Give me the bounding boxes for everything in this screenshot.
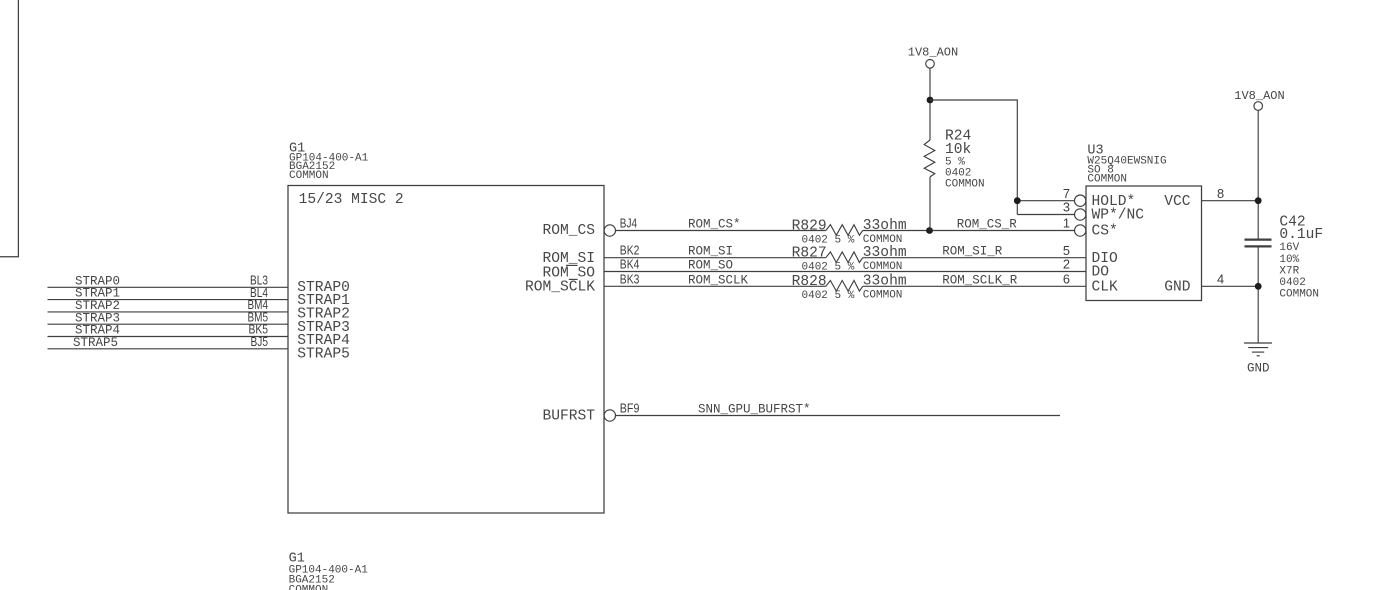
wire STRAP1 <box>48 287 289 301</box>
svg-text:BK2: BK2 <box>620 243 640 258</box>
pin 6 CLK <box>1063 271 1118 295</box>
svg-text:0402: 0402 <box>1279 277 1305 289</box>
wire STRAP5 <box>48 336 289 350</box>
pin BK4 ROM_SO <box>542 257 639 282</box>
svg-text:ROM_SCLK: ROM_SCLK <box>688 273 749 287</box>
svg-text:10%: 10% <box>1279 254 1299 266</box>
svg-text:COMMON: COMMON <box>289 170 329 182</box>
svg-text:CS*: CS* <box>1092 224 1118 240</box>
svg-text:COMMON: COMMON <box>863 290 903 302</box>
svg-text:VCC: VCC <box>1164 194 1191 210</box>
svg-text:33ohm: 33ohm <box>863 245 907 261</box>
pin 5 DIO <box>1063 243 1118 267</box>
pin 1 CS* <box>1063 216 1118 240</box>
svg-text:BUFRST: BUFRST <box>542 409 595 425</box>
svg-text:1V8_AON: 1V8_AON <box>1234 89 1284 103</box>
svg-text:ROM_CS*: ROM_CS* <box>688 218 741 232</box>
pin BK3 ROM_SCLK <box>525 271 639 295</box>
svg-text:0402 5 %: 0402 5 % <box>802 290 855 302</box>
wire STRAP0 <box>48 274 289 288</box>
pin BM5 STRAP3 <box>248 309 350 335</box>
pin 3 WP*/NC <box>1063 200 1144 224</box>
resistor R24 <box>924 129 984 231</box>
svg-text:ROM_SCLK: ROM_SCLK <box>525 279 595 295</box>
pin 8 VCC <box>1164 186 1258 210</box>
svg-text:STRAP5: STRAP5 <box>297 346 350 362</box>
junction at R24 top <box>927 97 934 104</box>
pin BF9 BUFRST <box>542 401 639 425</box>
svg-text:15/23 MISC 2: 15/23 MISC 2 <box>299 192 404 208</box>
svg-text:GND: GND <box>1164 279 1191 295</box>
svg-text:33ohm: 33ohm <box>863 274 907 290</box>
svg-text:R827: R827 <box>792 246 827 262</box>
svg-text:ROM_SI: ROM_SI <box>688 245 733 259</box>
svg-text:COMMON: COMMON <box>945 179 985 191</box>
svg-text:R829: R829 <box>792 218 827 234</box>
svg-text:BK3: BK3 <box>620 271 640 286</box>
wire STRAP2 <box>48 299 289 313</box>
wire ROM_SI net <box>604 245 1086 259</box>
pin BJ4 ROM_CS <box>542 216 637 239</box>
svg-text:ROM_CS: ROM_CS <box>542 223 595 239</box>
wire STRAP3 <box>48 311 289 325</box>
wire STRAP4 <box>48 324 289 338</box>
svg-text:COMMON: COMMON <box>289 585 329 590</box>
svg-text:0402 5 %: 0402 5 % <box>802 234 855 246</box>
IC G1 refdes/value labels (bottom sheet) <box>289 552 369 590</box>
pin 4 GND <box>1164 271 1258 295</box>
wire ROM_CS net <box>616 218 1075 232</box>
pin BK5 STRAP4 <box>249 322 351 349</box>
svg-text:WP*/NC: WP*/NC <box>1092 208 1145 224</box>
power symbol 1V8_AON (right) <box>1234 89 1284 239</box>
svg-text:5 %: 5 % <box>945 156 965 168</box>
svg-text:COMMON: COMMON <box>1087 174 1127 186</box>
ground symbol <box>1244 343 1272 376</box>
svg-text:ROM_SO: ROM_SO <box>688 259 733 273</box>
svg-text:2: 2 <box>1063 257 1070 272</box>
svg-text:DO: DO <box>1092 265 1110 281</box>
pin BJ5 STRAP5 <box>251 334 350 362</box>
pin BK2 ROM_SI <box>542 243 639 268</box>
svg-text:4: 4 <box>1217 271 1224 286</box>
pin BL3 STRAP0 <box>250 273 350 296</box>
junction on ROM_CS at R24 <box>926 227 933 234</box>
svg-text:0.1uF: 0.1uF <box>1279 227 1323 243</box>
svg-text:COMMON: COMMON <box>863 234 903 246</box>
svg-text:ROM_CS_R: ROM_CS_R <box>957 218 1018 232</box>
svg-text:X7R: X7R <box>1279 265 1299 277</box>
svg-text:STRAP5: STRAP5 <box>73 336 118 350</box>
pin BL4 STRAP1 <box>250 285 350 309</box>
svg-text:1: 1 <box>1063 216 1070 231</box>
svg-text:BK4: BK4 <box>620 257 640 272</box>
svg-text:BF9: BF9 <box>620 401 640 416</box>
junction at C42/GND pin <box>1255 283 1262 290</box>
wire SNN_GPU_BUFRST* net <box>616 403 1061 417</box>
resistor R828 <box>792 274 907 303</box>
IC G1 refdes/value labels (top) <box>289 141 369 182</box>
svg-text:5: 5 <box>1063 243 1070 258</box>
IC U3 body <box>1086 186 1202 301</box>
svg-text:1V8_AON: 1V8_AON <box>908 45 958 59</box>
svg-text:BJ4: BJ4 <box>620 216 637 231</box>
svg-text:ROM_SI_R: ROM_SI_R <box>942 245 1003 259</box>
svg-text:COMMON: COMMON <box>1279 289 1319 301</box>
wire ROM_SCLK net <box>604 273 1086 287</box>
wire from 1V8_AON to U3 HOLD/WP <box>930 100 1075 215</box>
power symbol 1V8_AON (left) <box>908 45 958 140</box>
pin BM4 STRAP2 <box>248 297 350 322</box>
svg-text:SNN_GPU_BUFRST*: SNN_GPU_BUFRST* <box>698 403 811 417</box>
svg-text:33ohm: 33ohm <box>863 218 907 234</box>
svg-text:7: 7 <box>1063 186 1070 201</box>
resistor R827 <box>792 245 907 274</box>
wire ROM_SO net <box>604 259 1086 273</box>
junction at VCC <box>1255 197 1262 204</box>
svg-text:ROM_SCLK_R: ROM_SCLK_R <box>942 273 1018 287</box>
svg-text:8: 8 <box>1217 186 1224 201</box>
IC U3 refdes/value labels <box>1087 144 1166 186</box>
pin 2 DO <box>1063 257 1109 281</box>
resistor R829 <box>792 218 907 247</box>
svg-text:R828: R828 <box>792 274 827 290</box>
svg-text:6: 6 <box>1063 271 1070 286</box>
IC G1 body <box>288 186 604 514</box>
junction at HOLD branch <box>1014 197 1021 204</box>
capacitor C42 <box>1245 214 1324 343</box>
pin 7 HOLD* <box>1063 186 1135 210</box>
svg-text:GND: GND <box>1247 362 1270 376</box>
svg-text:3: 3 <box>1063 200 1070 215</box>
svg-text:16V: 16V <box>1279 242 1299 254</box>
svg-text:CLK: CLK <box>1092 279 1119 295</box>
